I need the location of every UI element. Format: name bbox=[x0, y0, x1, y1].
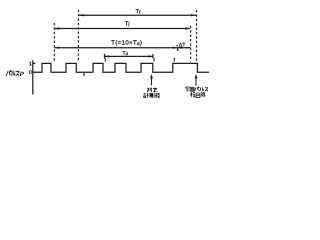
label pulse P katakana bbox=[6, 71, 19, 76]
kanji shutsu (out) bbox=[196, 92, 200, 98]
level tick 0 bbox=[33, 71, 35, 73]
axis vertical line bbox=[32, 60, 34, 94]
Td right arrowhead bbox=[148, 55, 153, 57]
katakana pa bbox=[6, 71, 11, 76]
Tj left arrowhead bbox=[54, 27, 59, 29]
kanji han (judge) bbox=[147, 88, 157, 93]
T left arrowhead bbox=[54, 47, 59, 49]
label Td bbox=[123, 51, 128, 55]
up arrow head current pulse bbox=[195, 74, 198, 79]
katakana su small bbox=[205, 88, 208, 92]
Td dimension line bbox=[105, 55, 154, 57]
dot mark before dT bbox=[176, 45, 177, 46]
T right arrowhead bbox=[173, 47, 178, 49]
Tr dimension line bbox=[79, 14, 197, 16]
kanji ken (detect) bbox=[191, 92, 196, 97]
Tj right arrowhead bbox=[185, 27, 190, 29]
dashed line D4 bbox=[153, 58, 155, 61]
T dimension line bbox=[54, 47, 177, 49]
dT left arrowhead bbox=[178, 47, 182, 49]
katakana su bbox=[16, 71, 20, 76]
up arrow shaft judgement bbox=[151, 77, 153, 86]
kanji toki (time) bbox=[155, 93, 160, 98]
wire pulse waveform P bbox=[33, 63, 209, 72]
Tr right arrowhead bbox=[191, 14, 196, 16]
dashed line D1 bbox=[53, 23, 55, 62]
label 0 bbox=[29, 70, 31, 74]
label T(=10xTd) bbox=[111, 40, 141, 46]
Td right tick bbox=[152, 54, 154, 58]
dashed line D5 bbox=[173, 58, 175, 61]
kanji kai (turn) bbox=[190, 87, 194, 91]
dT dimension line bbox=[178, 47, 191, 49]
up arrow shaft current pulse bbox=[195, 77, 197, 86]
node mark under waveform bbox=[83, 73, 85, 76]
level tick 1 bbox=[33, 62, 35, 64]
up arrow head judgement time bbox=[150, 74, 153, 79]
label 1 bbox=[29, 62, 31, 66]
Td left arrowhead bbox=[105, 55, 110, 57]
label Tj bbox=[125, 21, 129, 26]
Td left tick bbox=[104, 54, 106, 58]
dT right arrowhead bbox=[186, 47, 190, 49]
label Tr bbox=[136, 9, 141, 13]
Tr left arrowhead bbox=[79, 14, 84, 16]
T end tick bbox=[177, 47, 179, 51]
katakana pa small bbox=[195, 87, 199, 91]
katakana ru small bbox=[199, 87, 203, 91]
katakana ru bbox=[11, 71, 15, 76]
kanji kon (now) bbox=[185, 87, 189, 92]
label P bbox=[20, 72, 24, 76]
label dT bbox=[179, 43, 185, 47]
dashed line D2 bbox=[77, 10, 79, 62]
dashed line D6 bbox=[190, 26, 192, 62]
kanji kei (measure) bbox=[144, 93, 149, 98]
kanji tei (decide) bbox=[153, 88, 157, 93]
Tj dimension line bbox=[54, 28, 190, 30]
kanji toki2 (time) bbox=[201, 92, 205, 97]
dashed line D3 bbox=[104, 58, 106, 61]
kanji san (calculate) bbox=[149, 93, 153, 98]
dashed line D7 bbox=[196, 10, 198, 62]
